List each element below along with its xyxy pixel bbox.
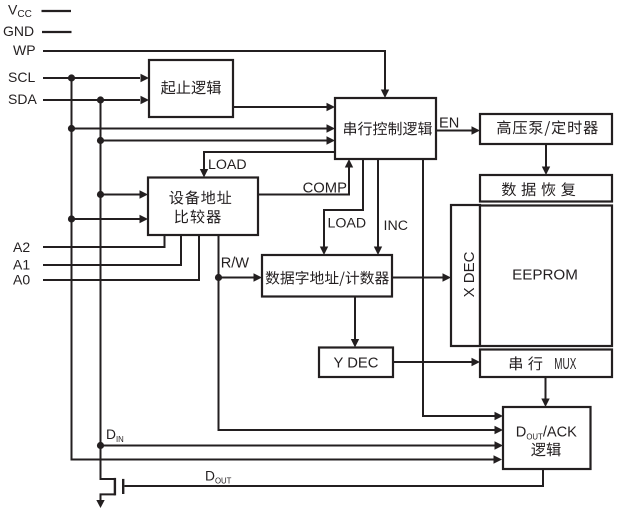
arrowhead COMP into serial control bottom (345, 159, 353, 168)
arrowhead SCL into comparator (140, 215, 149, 223)
block U1 label 起止逻辑 (161, 80, 221, 94)
wire SDA branch to serial control (101, 140, 330, 142)
arrowhead into Y DEC top (351, 339, 359, 348)
arrowhead SCL line into Dout/ACK logic (494, 455, 503, 463)
wire word-address to Y DEC (354, 296, 356, 342)
wire SCL to start-stop logic (43, 77, 140, 79)
wire start-stop output to serial control (233, 106, 329, 108)
svg-text:INC: INC (384, 218, 408, 234)
wire SCL branch to serial control (72, 128, 330, 130)
arrowhead DIN into Dout/ACK (495, 441, 504, 449)
svg-text:EN: EN (439, 116, 459, 132)
svg-text:MUX: MUX (554, 356, 576, 373)
svg-text:WP: WP (13, 42, 36, 58)
svg-text:R/W: R/W (221, 256, 250, 272)
svg-text:A0: A0 (13, 272, 30, 288)
wire SDA vertical bus (100, 100, 102, 446)
block U1 start-stop logic box (149, 60, 233, 117)
arrowhead EN into HV pump (472, 126, 481, 134)
wire serial MUX to Dout/ACK logic (545, 377, 547, 401)
block U4 label 高压泵/定时器 (497, 120, 598, 136)
block U2 label line2 比较器 (175, 209, 221, 223)
svg-text:SCL: SCL (8, 69, 35, 85)
transistor Q1 source lead (101, 494, 115, 501)
block U2 device address comparator box (148, 178, 258, 236)
arrowhead R/W into word address counter (254, 273, 263, 281)
wire DIN to Dout/ACK logic (101, 445, 498, 447)
junction node SDA (97, 96, 104, 103)
wire SCL vertical bus (72, 78, 497, 460)
arrowhead into data recovery top (542, 167, 550, 176)
arrowhead MUX into Dout/ACK top (541, 399, 549, 408)
pin VCC stub wire (42, 10, 72, 12)
wire A1 to comparator (43, 235, 181, 265)
junction node DIN (97, 442, 104, 449)
block U8 label 串行 (510, 356, 543, 370)
block U9 word address / counter box (262, 255, 392, 297)
svg-text:X DEC: X DEC (461, 251, 478, 297)
junction node SCL/comparator branch (68, 215, 75, 222)
wire EN serial-control to HV pump (436, 130, 474, 132)
wire A2 to comparator (43, 235, 165, 247)
wire R/W to word address counter (219, 277, 257, 279)
wire R/W comparator to word-address and Dout/ACK (219, 235, 498, 430)
block U5 label 数据恢复 (502, 182, 575, 196)
svg-text:DOUT: DOUT (205, 469, 232, 486)
block U4 high-voltage pump / timer box (480, 114, 612, 144)
svg-text:DIN: DIN (106, 427, 124, 444)
block U7 EEPROM array box (480, 206, 612, 347)
block U3 label 串行控制逻辑 (344, 122, 432, 136)
svg-text:LOAD: LOAD (208, 157, 247, 173)
block U9 label 数据字地址/计数器 (266, 271, 389, 286)
svg-text:A1: A1 (13, 257, 30, 273)
svg-text:Y DEC: Y DEC (334, 355, 379, 371)
wire WP to serial-control top (43, 51, 385, 94)
wire LOAD serial-control to comparator (204, 152, 335, 172)
wire INC serial-control to word address counter (377, 159, 379, 249)
wire SDA branch to address comparator (101, 194, 143, 196)
svg-text:DOUT/ACK: DOUT/ACK (516, 425, 577, 442)
block U3 serial control logic box (335, 98, 436, 159)
arrowhead R/W line into Dout/ACK (495, 426, 504, 434)
wire LOAD serial-control to word address counter (324, 159, 363, 249)
wire A0 to comparator (43, 235, 199, 280)
arrowhead SDA into start-stop (141, 96, 150, 104)
junction node SDA/serial branch (97, 137, 104, 144)
block U11 Dout/ACK logic box (503, 407, 591, 469)
junction node SCL/serial branch (68, 125, 75, 132)
block U5 data recovery box (480, 175, 612, 202)
junction node R/W (215, 274, 222, 281)
arrowhead LOAD into comparator top (200, 169, 208, 178)
arrowhead SDA into comparator (140, 190, 149, 198)
wire DOUT from Dout/ACK to output transistor gate (125, 469, 544, 486)
wire SCL branch to address comparator (72, 218, 143, 220)
transistor Q1 channel bar (114, 478, 116, 496)
arrowhead into serial MUX (472, 358, 481, 366)
transistor Q1 source arrow to output (96, 500, 104, 508)
wire SDA to start-stop logic (43, 99, 140, 101)
block U11 label line2 逻辑 (531, 442, 560, 456)
wire serial-control to Dout/ACK logic (423, 159, 497, 416)
svg-text:VCC: VCC (8, 2, 32, 21)
pin GND stub wire (42, 31, 72, 33)
wire word-address to X DEC (392, 277, 445, 279)
arrowhead WP into serial control (381, 90, 389, 99)
arrowhead LOAD into word address counter (320, 247, 328, 256)
transistor Q1 drain lead (101, 446, 115, 480)
wire Y DEC to serial MUX (393, 361, 474, 363)
wire COMP comparator to serial control (258, 164, 349, 195)
arrowhead start-stop into serial control (327, 103, 336, 111)
svg-text:LOAD: LOAD (328, 216, 367, 232)
junction node SDA/comparator branch (97, 191, 104, 198)
junction node SCL (68, 74, 75, 81)
svg-text:GND: GND (3, 23, 34, 39)
arrowhead SCL into start-stop (141, 74, 150, 82)
arrowhead SDA branch into serial control (327, 136, 336, 144)
block U10 Y DEC box (319, 348, 393, 378)
svg-text:COMP: COMP (303, 180, 348, 196)
wire HV pump to data recovery (545, 144, 547, 169)
svg-text:SDA: SDA (8, 91, 37, 107)
svg-text:A2: A2 (13, 239, 30, 255)
block U6 X DEC box (451, 205, 480, 346)
arrowhead INC into word address counter (374, 247, 382, 256)
svg-text:EEPROM: EEPROM (512, 267, 578, 284)
arrowhead SCL branch into serial control (327, 124, 336, 132)
arrowhead into X DEC (443, 273, 452, 281)
block U2 label line1 设备地址 (169, 191, 231, 205)
transistor Q1 gate bar (122, 479, 124, 494)
block U8 serial MUX box (480, 350, 612, 378)
arrowhead serial-control into Dout/ACK (495, 412, 504, 420)
